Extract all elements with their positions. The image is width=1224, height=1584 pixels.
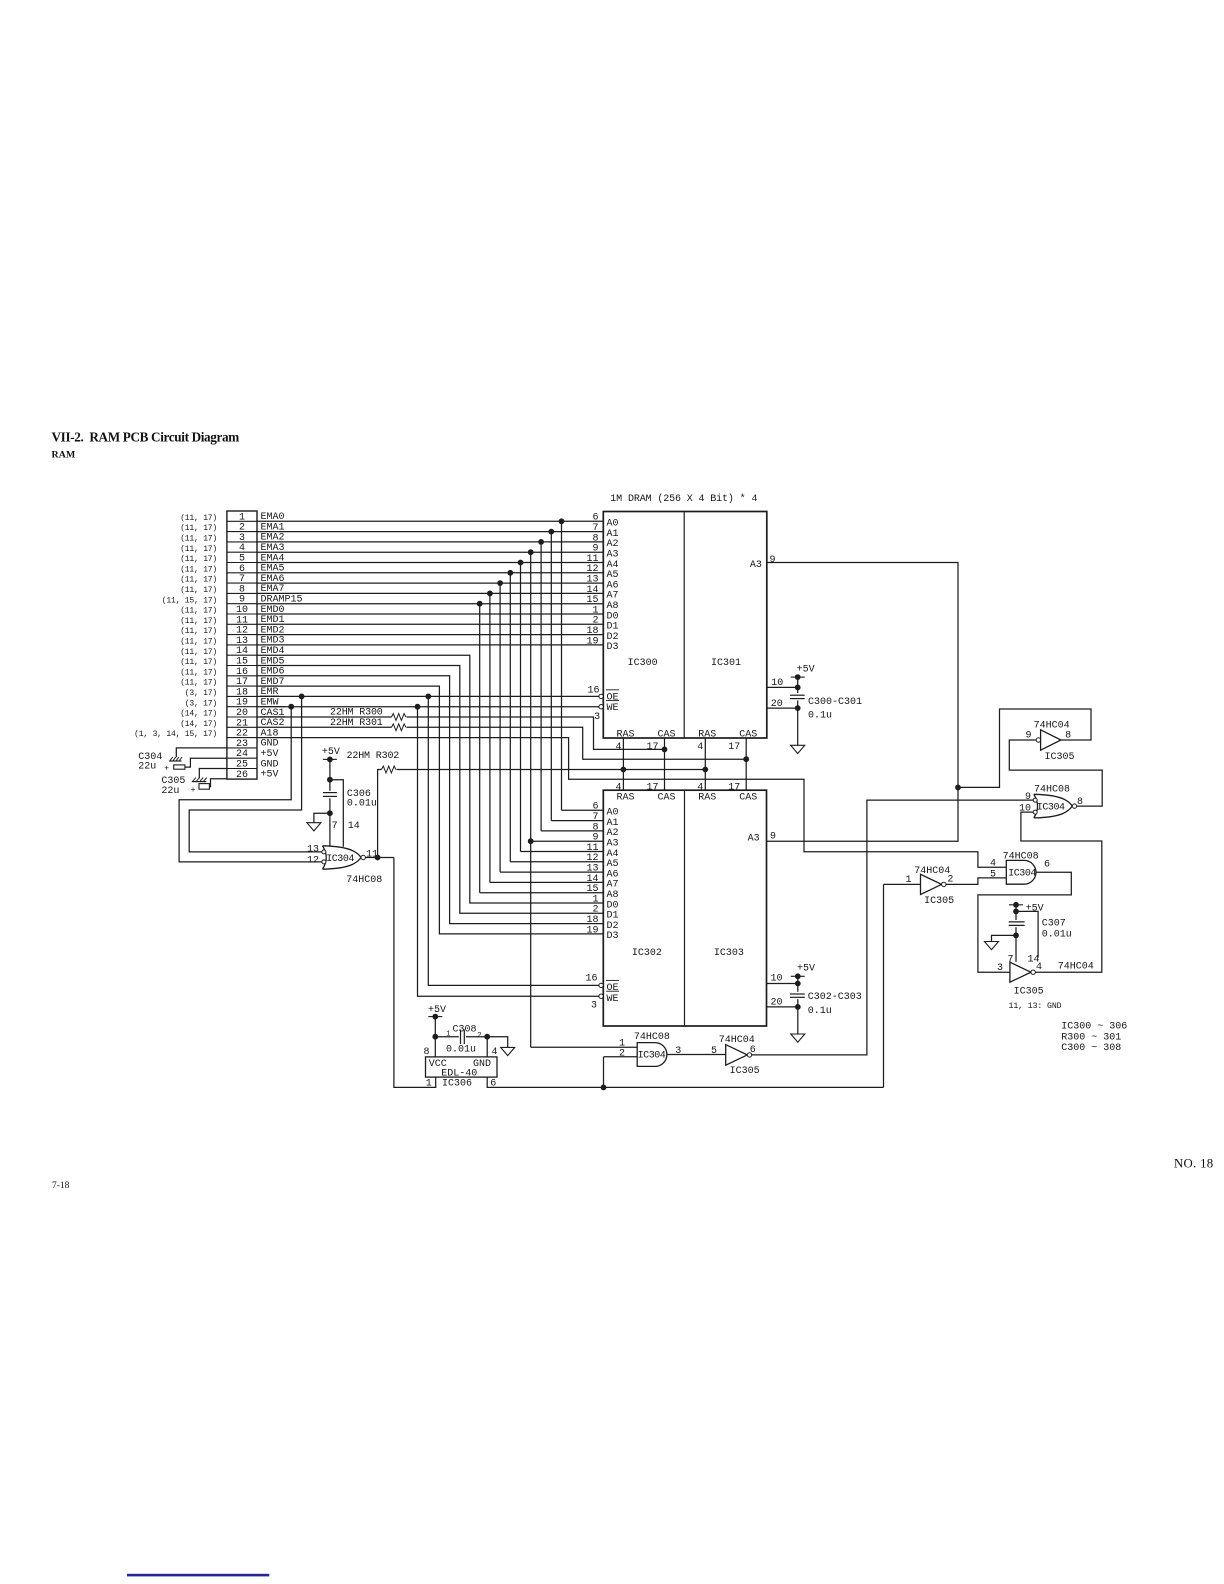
svg-text:9: 9 bbox=[770, 555, 776, 566]
svg-text:17: 17 bbox=[646, 742, 658, 753]
svg-text:74HC08: 74HC08 bbox=[1003, 851, 1039, 862]
svg-text:(11, 17): (11, 17) bbox=[180, 535, 217, 544]
svg-text:(11, 15, 17): (11, 15, 17) bbox=[162, 596, 217, 605]
svg-text:R300 ~ 301: R300 ~ 301 bbox=[1061, 1032, 1121, 1043]
svg-text:(11, 17): (11, 17) bbox=[180, 565, 217, 574]
svg-text:17: 17 bbox=[646, 783, 658, 794]
wire IC305b output to A3 net junction bbox=[958, 709, 1091, 787]
svg-text:7: 7 bbox=[332, 821, 338, 832]
svg-text:(11, 17): (11, 17) bbox=[180, 545, 217, 554]
wire CAS stub vertical IC300-IC302 bbox=[664, 738, 666, 790]
wire A3 drop into IC304d pin1 bbox=[531, 1046, 638, 1048]
svg-text:17: 17 bbox=[728, 783, 740, 794]
wire IC304d output to IC305c input bbox=[667, 1054, 726, 1056]
ground below C300-C301 bbox=[791, 745, 805, 753]
svg-text:+5V: +5V bbox=[261, 770, 279, 781]
svg-text:+5V: +5V bbox=[1026, 903, 1044, 914]
svg-text:0.01u: 0.01u bbox=[1042, 929, 1072, 940]
svg-text:D3: D3 bbox=[607, 931, 619, 942]
wire EMA2 net: row 3 to IC300 A2, junction dot, drop to IC302 A2 bbox=[257, 541, 603, 543]
svg-text:1: 1 bbox=[426, 1079, 432, 1090]
wire IC301 pin20 junction bbox=[767, 707, 798, 709]
svg-text:(11, 17): (11, 17) bbox=[180, 586, 217, 595]
resistor R302 bbox=[382, 766, 396, 773]
wire pin24 +5V to C304 plus terminal bbox=[185, 758, 227, 767]
wire RAS stub vertical IC300-IC302 with junction dot bbox=[622, 738, 624, 790]
svg-text:NO. 18: NO. 18 bbox=[1174, 1157, 1213, 1171]
ground for C306 bbox=[314, 813, 330, 823]
svg-text:74HC08: 74HC08 bbox=[1034, 784, 1070, 795]
wire EMD2 (pin 12 to IC300 D2) bbox=[257, 634, 603, 636]
svg-text:(11, 17): (11, 17) bbox=[180, 668, 217, 677]
svg-text:OE: OE bbox=[607, 692, 619, 703]
svg-text:(14, 17): (14, 17) bbox=[180, 720, 217, 729]
svg-text:(11, 17): (11, 17) bbox=[180, 555, 217, 564]
svg-text:4: 4 bbox=[615, 783, 621, 794]
wire IC303 pin20 junction bbox=[767, 1006, 798, 1008]
svg-text:13: 13 bbox=[307, 844, 319, 855]
svg-text:22u: 22u bbox=[161, 786, 179, 797]
svg-text:IC305: IC305 bbox=[1045, 752, 1075, 763]
net RAS: R302 output to RAS stubs bbox=[397, 769, 706, 771]
svg-text:20: 20 bbox=[771, 699, 783, 710]
svg-text:(11, 17): (11, 17) bbox=[180, 524, 217, 533]
blue rule at page bottom bbox=[127, 1574, 269, 1577]
svg-text:IC300: IC300 bbox=[628, 658, 658, 669]
svg-text:19: 19 bbox=[586, 925, 598, 936]
svg-text:OE: OE bbox=[607, 983, 619, 994]
wire IC303 pin10 to +5V rail bbox=[767, 983, 798, 985]
svg-text:22HM R300: 22HM R300 bbox=[330, 708, 383, 719]
svg-text:10: 10 bbox=[771, 678, 783, 689]
ground for C307 bbox=[992, 935, 1017, 941]
net A18: row to IC304c pin4 bbox=[257, 738, 1006, 868]
svg-text:2: 2 bbox=[477, 1032, 481, 1040]
wire CAS stub vertical IC301-IC303 bbox=[745, 738, 747, 790]
svg-text:(1, 3, 14, 15, 17): (1, 3, 14, 15, 17) bbox=[134, 730, 217, 739]
svg-text:VII-2. RAM PCB Circuit Diagra: VII-2. RAM PCB Circuit Diagram bbox=[52, 430, 240, 445]
svg-text:RAS: RAS bbox=[698, 793, 716, 804]
wire IC305c output to IC304b pin9 bbox=[752, 800, 1033, 1055]
wire EMA0 net: row 1 to IC300 A0, junction dot, drop to IC302 A0 bbox=[257, 520, 603, 522]
connector body (26-pin) bbox=[227, 511, 257, 779]
capacitor C300-C301 0.1u bbox=[797, 677, 799, 693]
svg-text:19: 19 bbox=[586, 636, 598, 647]
inverter IC305b 74HC04 (pins 9 to 8, input bubble) bbox=[1036, 738, 1040, 742]
svg-text:4: 4 bbox=[697, 742, 703, 753]
svg-text:(14, 17): (14, 17) bbox=[180, 710, 217, 719]
svg-text:IC305: IC305 bbox=[1014, 987, 1044, 998]
svg-text:22HM R302: 22HM R302 bbox=[347, 751, 400, 762]
svg-text:+: + bbox=[164, 765, 169, 774]
svg-text:8: 8 bbox=[423, 1047, 429, 1058]
wire IC306 pin6 output bus with junction dot to IC304d pin2 bbox=[487, 1077, 883, 1087]
svg-text:3: 3 bbox=[591, 1000, 597, 1011]
svg-text:(3, 17): (3, 17) bbox=[185, 699, 217, 708]
svg-text:RAM: RAM bbox=[52, 450, 76, 461]
wire DRAMP15 net: row 9 to IC300 A8, junction dot, drop to IC302 A8 bbox=[257, 603, 603, 605]
and gate IC304c 74HC08 (pins 4,5 to 6) bbox=[1006, 860, 1036, 884]
svg-text:7: 7 bbox=[1007, 955, 1013, 966]
svg-text:4: 4 bbox=[492, 1047, 498, 1058]
svg-text:+: + bbox=[191, 786, 196, 795]
wire IC305a input from delay-line bus bbox=[884, 883, 921, 885]
svg-text:IC306: IC306 bbox=[442, 1079, 472, 1090]
svg-text:A3: A3 bbox=[748, 833, 760, 844]
capacitor C306 0.01u with IC304 power pins 7,14 bbox=[329, 759, 331, 790]
svg-text:5: 5 bbox=[711, 1046, 717, 1057]
wire IC304a output pin11 to R302 and delay line, junction dot bbox=[365, 857, 394, 859]
wire EMD6 (pin 16 to IC302 D2) bbox=[257, 676, 603, 924]
and gate IC304a 74HC08 (pins 13,12 to 11, DeMorgan OR symbol) bbox=[323, 846, 361, 869]
wire EMD5 (pin 15 to IC302 D1) bbox=[257, 666, 603, 914]
svg-text:3: 3 bbox=[997, 963, 1003, 974]
svg-text:+5V: +5V bbox=[797, 665, 815, 676]
inverter IC305c 74HC04 (pins 5 to 6) bbox=[726, 1045, 748, 1066]
svg-text:1: 1 bbox=[446, 1031, 450, 1039]
svg-text:IC302: IC302 bbox=[632, 948, 662, 959]
wire R302 left to IC304a output bbox=[378, 770, 382, 858]
node A3 net extension: dot at IC302 A3 row, drop to IC304d pin1 bbox=[528, 838, 534, 844]
svg-text:C302-C303: C302-C303 bbox=[808, 992, 862, 1003]
delay line IC306 EDL-40 body bbox=[426, 1057, 498, 1077]
capacitor C308 0.01u bbox=[435, 1036, 459, 1038]
DRAM IC302/IC303 body bbox=[603, 790, 766, 1026]
svg-text:C307: C307 bbox=[1042, 918, 1066, 929]
wire EMD1 (pin 11 to IC300 D1) bbox=[257, 623, 603, 625]
net EMR: row to IC300 OE, junction dots, loop to IC304a pin13, drop to IC302 OE bbox=[257, 695, 599, 697]
svg-text:16: 16 bbox=[587, 686, 599, 697]
svg-text:26: 26 bbox=[236, 770, 248, 781]
svg-text:2: 2 bbox=[619, 1048, 625, 1059]
svg-text:4: 4 bbox=[615, 742, 621, 753]
svg-text:(11, 17): (11, 17) bbox=[180, 627, 217, 636]
wire IC304b pin10 from IC305d output bbox=[1021, 812, 1102, 972]
svg-text:74HC08: 74HC08 bbox=[346, 875, 382, 886]
svg-text:C308: C308 bbox=[453, 1024, 477, 1035]
inverter IC305d 74HC04 (pins 3 to 4) bbox=[1010, 962, 1031, 982]
svg-text:(11, 17): (11, 17) bbox=[180, 607, 217, 616]
wire IC304b output to IC305b input bbox=[1009, 740, 1102, 806]
svg-text:9: 9 bbox=[1025, 730, 1031, 741]
svg-text:5: 5 bbox=[990, 869, 996, 880]
wire pin25 GND to C305 bbox=[199, 769, 227, 779]
svg-text:IC301: IC301 bbox=[711, 658, 741, 669]
svg-text:(11, 17): (11, 17) bbox=[180, 617, 217, 626]
wire IC304c output to IC305d input bbox=[978, 872, 1071, 972]
svg-text:6: 6 bbox=[750, 1045, 756, 1056]
svg-text:0.1u: 0.1u bbox=[808, 711, 832, 722]
svg-text:CAS: CAS bbox=[657, 793, 675, 804]
wire EMD7 (pin 17 to IC302 D3) bbox=[257, 686, 603, 934]
svg-text:9: 9 bbox=[1025, 792, 1031, 803]
svg-text:12: 12 bbox=[307, 856, 319, 867]
DRAM IC300/IC301 body bbox=[603, 512, 767, 739]
wire EMA6 net: row 7 to IC300 A6, junction dot, drop to IC302 A6 bbox=[257, 582, 603, 584]
svg-text:CAS: CAS bbox=[739, 793, 757, 804]
svg-text:11, 13: GND: 11, 13: GND bbox=[1009, 1002, 1062, 1011]
svg-text:22HM R301: 22HM R301 bbox=[330, 718, 383, 729]
and gate IC304d 74HC08 (pins 1,2 to 3) bbox=[637, 1043, 667, 1067]
svg-text:(11, 17): (11, 17) bbox=[180, 679, 217, 688]
svg-text:IC304: IC304 bbox=[1008, 869, 1036, 880]
svg-text:C300 ~ 308: C300 ~ 308 bbox=[1061, 1043, 1121, 1054]
svg-text:0.1u: 0.1u bbox=[808, 1006, 832, 1017]
svg-text:74HC04: 74HC04 bbox=[1058, 961, 1094, 972]
svg-text:74HC04: 74HC04 bbox=[914, 866, 950, 877]
svg-text:IC305: IC305 bbox=[730, 1066, 760, 1077]
power +5V for C307 / IC305 pin14 bbox=[1009, 904, 1023, 906]
svg-text:A3: A3 bbox=[750, 560, 762, 571]
capacitor C307 0.01u with IC305 power pins 7,14 bbox=[1015, 905, 1017, 920]
and gate IC304b 74HC08 (pins 9,10 to 8, DeMorgan OR symbol) bbox=[1034, 794, 1072, 818]
svg-text:RAS: RAS bbox=[616, 793, 634, 804]
net EMW: row to IC300 WE, junction dots, loop to IC304a pin12, drop to IC302 WE bbox=[257, 706, 599, 708]
svg-text:(11, 17): (11, 17) bbox=[180, 658, 217, 667]
svg-text:RAS: RAS bbox=[616, 729, 634, 740]
resistor R301 bbox=[257, 726, 392, 728]
wire EMA1 net: row 2 to IC300 A1, junction dot, drop to IC302 A1 bbox=[257, 531, 603, 533]
svg-text:+5V: +5V bbox=[322, 747, 340, 758]
wire +5V branch to IC305 pin 14 bbox=[1016, 911, 1038, 957]
wire +5V branch to IC304 pin 14 bbox=[330, 780, 343, 847]
wire IC301 pin10 to +5V rail bbox=[767, 686, 798, 688]
capacitor C302-C303 0.1u bbox=[797, 976, 799, 992]
svg-text:16: 16 bbox=[585, 974, 597, 985]
wire EMA4 net: row 5 to IC300 A4, junction dot, drop to IC302 A4 bbox=[257, 562, 603, 564]
ground for C308 bbox=[487, 1037, 508, 1048]
svg-text:CAS: CAS bbox=[739, 729, 757, 740]
svg-text:C300-C301: C300-C301 bbox=[808, 697, 862, 708]
svg-text:(11, 17): (11, 17) bbox=[180, 638, 217, 647]
svg-text:10: 10 bbox=[771, 974, 783, 985]
svg-text:+5V: +5V bbox=[797, 963, 815, 974]
svg-text:17: 17 bbox=[728, 742, 740, 753]
wire EMD3 (pin 13 to IC300 D3) bbox=[257, 644, 603, 646]
svg-text:22u: 22u bbox=[138, 761, 156, 772]
wire IC305a output to IC304c pin5 (jog) bbox=[946, 878, 1006, 885]
IC306 pin 4 stub (GND) bbox=[486, 1037, 488, 1057]
svg-text:14: 14 bbox=[348, 821, 360, 832]
svg-text:0.01u: 0.01u bbox=[446, 1044, 476, 1055]
svg-text:IC304: IC304 bbox=[638, 1051, 666, 1062]
svg-text:4: 4 bbox=[990, 859, 996, 870]
IC306 pin 8 stub (VCC) bbox=[434, 1037, 436, 1057]
wire IC304d pin2 stub bbox=[604, 1056, 638, 1058]
wire EMD4 (pin 14 to IC302 D0) bbox=[257, 655, 603, 903]
net A3 link: IC301 pin9 to IC303 pin9 with junction dot bbox=[767, 563, 959, 842]
svg-text:D3: D3 bbox=[607, 642, 619, 653]
wire pin26 +5V to C305 plus terminal bbox=[209, 779, 227, 787]
svg-text:20: 20 bbox=[771, 998, 783, 1009]
svg-text:7-18: 7-18 bbox=[52, 1181, 70, 1191]
wire RAS stub vertical IC301-IC303 with junction dot bbox=[704, 738, 706, 790]
svg-text:(11, 17): (11, 17) bbox=[180, 576, 217, 585]
svg-text:1M DRAM (256 X 4 Bit) * 4: 1M DRAM (256 X 4 Bit) * 4 bbox=[610, 493, 757, 505]
svg-text:IC304: IC304 bbox=[1037, 803, 1065, 814]
svg-text:3: 3 bbox=[675, 1046, 681, 1057]
inverter IC305a 74HC04 (pins 1 to 2) bbox=[921, 874, 942, 894]
wire EMD0 (pin 10 to IC300 D0) bbox=[257, 613, 603, 615]
svg-text:IC305: IC305 bbox=[924, 896, 954, 907]
svg-text:WE: WE bbox=[607, 994, 619, 1005]
svg-text:(11, 17): (11, 17) bbox=[180, 514, 217, 523]
wire pin23 GND to C304 bbox=[176, 748, 227, 757]
svg-text:14: 14 bbox=[1028, 955, 1040, 966]
wire EMA7 net: row 8 to IC300 A7, junction dot, drop to IC302 A7 bbox=[257, 592, 603, 594]
svg-text:IC304: IC304 bbox=[326, 854, 354, 865]
svg-text:(11, 17): (11, 17) bbox=[180, 648, 217, 657]
svg-text:74HC08: 74HC08 bbox=[634, 1032, 670, 1043]
svg-text:(3, 17): (3, 17) bbox=[185, 689, 217, 698]
resistor R300 bbox=[257, 716, 392, 718]
svg-text:CAS: CAS bbox=[657, 729, 675, 740]
wire EMA3 net: row 4 to IC300 A3, junction dot, drop to IC302 A3 bbox=[257, 551, 603, 553]
svg-text:IC300 ~ 306: IC300 ~ 306 bbox=[1061, 1022, 1127, 1033]
svg-text:RAS: RAS bbox=[698, 729, 716, 740]
svg-text:4: 4 bbox=[697, 783, 703, 794]
wire EMA5 net: row 6 to IC300 A5, junction dot, drop to IC302 A5 bbox=[257, 572, 603, 574]
wire CAS1 net to CAS stubs bbox=[407, 717, 665, 749]
svg-text:6: 6 bbox=[1044, 859, 1050, 870]
wire CAS2 net to CAS stubs bbox=[407, 727, 747, 759]
capacitor C305 (22u electrolytic) bbox=[192, 781, 207, 783]
svg-text:0.01u: 0.01u bbox=[347, 798, 377, 809]
svg-text:WE: WE bbox=[607, 703, 619, 714]
svg-text:IC303: IC303 bbox=[714, 948, 744, 959]
capacitor C304 (22u electrolytic) bbox=[169, 760, 181, 762]
ground below C302-C303 bbox=[791, 1034, 805, 1042]
svg-text:3: 3 bbox=[594, 712, 600, 723]
